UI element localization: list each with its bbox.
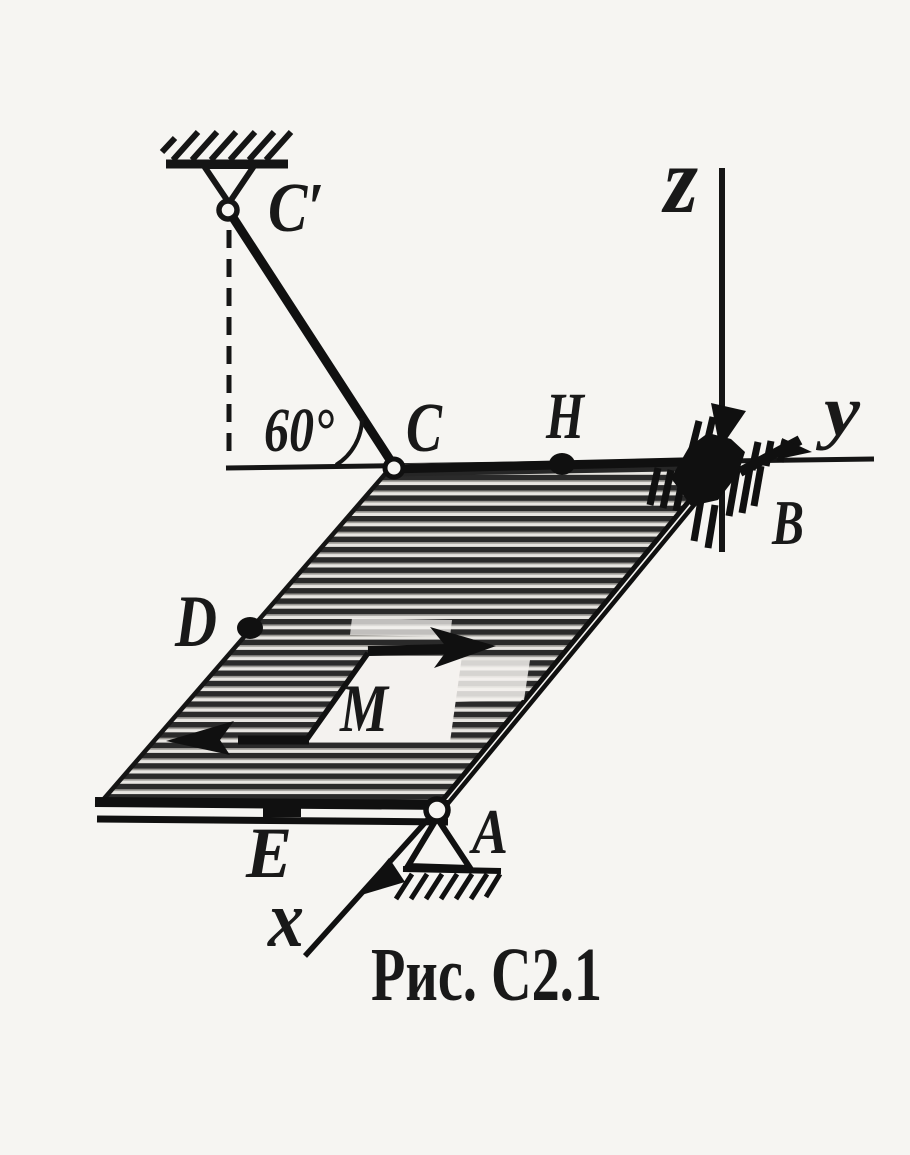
ceiling hatching above C' (162, 132, 291, 160)
moment M bottom arrow shaft (238, 736, 309, 745)
svg-text:C: C (406, 390, 443, 467)
svg-text:y: y (815, 371, 861, 451)
z-axis line (719, 168, 725, 552)
svg-text:C′: C′ (268, 170, 324, 247)
support triangle at A (408, 818, 470, 868)
plate bottom edge white gap (96, 811, 447, 814)
white area around M label (306, 618, 530, 742)
support bracket at C' (204, 166, 254, 203)
svg-text:z: z (661, 129, 698, 233)
plate bottom edge inner line (97, 819, 448, 822)
moment M diagonal connector (307, 653, 368, 739)
y-axis line (226, 459, 874, 468)
plate right edge B to A (437, 461, 722, 807)
point E mark (263, 801, 301, 817)
dashed vertical line C' to y-axis (227, 230, 232, 460)
diagonal band right of B (740, 440, 800, 472)
pin circle A (426, 799, 448, 821)
pin C' (219, 201, 237, 219)
pin circle C (385, 459, 403, 477)
moment M top arrow shaft (368, 649, 448, 651)
x-axis arrowhead (358, 858, 405, 896)
ceiling bar (166, 160, 288, 169)
svg-text:D: D (174, 581, 217, 663)
rod C'C (232, 216, 394, 466)
small arrow tip right of B (782, 438, 812, 458)
moment M bottom arrowhead (166, 721, 234, 755)
svg-text:B: B (771, 487, 804, 558)
svg-text:x: x (267, 876, 304, 964)
arrow on z-axis above B (711, 403, 746, 449)
ground hatching at A (396, 874, 500, 899)
bearing hatching at B (650, 417, 785, 548)
plate hatching (102, 459, 722, 806)
svg-text:M: M (339, 670, 390, 746)
plate left edge (102, 466, 392, 801)
x-axis line (305, 806, 440, 956)
plate bottom edge outer line (95, 802, 448, 805)
svg-text:H: H (545, 380, 586, 453)
plate top edge C to B (390, 461, 722, 469)
bearing blob at B (671, 433, 745, 506)
moment M top arrowhead (430, 627, 496, 668)
svg-text:A: A (469, 796, 508, 867)
svg-text:60°: 60° (264, 397, 334, 465)
angle arc at C (336, 418, 362, 465)
svg-text:Рис. С2.1: Рис. С2.1 (371, 933, 602, 1017)
plate right edge B to A (outer) (441, 465, 727, 812)
ground line at A (403, 869, 501, 871)
point H dot (549, 453, 575, 475)
point D dot (237, 617, 263, 639)
